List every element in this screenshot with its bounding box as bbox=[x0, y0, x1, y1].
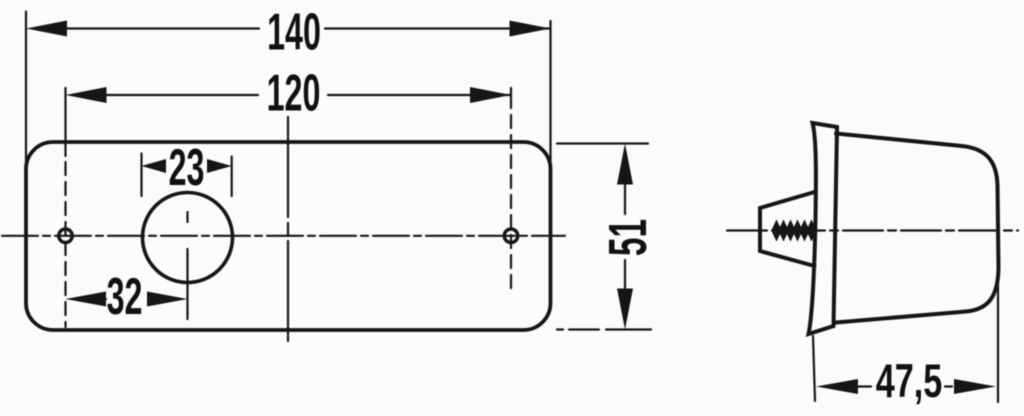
dimension text 32 bbox=[107, 268, 143, 326]
dimension 23 arrow left (pointing left) bbox=[142, 159, 167, 173]
dimension 47.5 arrow left bbox=[816, 379, 858, 394]
dimension 47.5 line bbox=[857, 385, 952, 387]
dimension text 120 bbox=[267, 65, 321, 123]
dimension text 51 (rotated) bbox=[597, 219, 658, 256]
vertical centerline (front view) bbox=[287, 117, 289, 341]
side view horizontal centerline bbox=[727, 229, 1018, 231]
side view: lamp body profile bbox=[836, 134, 999, 323]
right mounting point circle bbox=[504, 229, 518, 243]
left mounting centerline (dashed vertical, 120 extension) bbox=[64, 88, 66, 156]
svg-text:51: 51 bbox=[597, 219, 658, 256]
side view: threaded stud bbox=[772, 222, 815, 240]
svg-text:32: 32 bbox=[107, 268, 143, 326]
dimension 140 line bbox=[66, 27, 550, 29]
lens hole circle d23 bbox=[143, 193, 233, 283]
dimension text 47,5 bbox=[876, 355, 943, 408]
dimension text 23 bbox=[169, 139, 205, 197]
dimension 120 arrow left bbox=[66, 87, 107, 103]
dimension 32 arrow left (pointing left) bbox=[66, 292, 107, 307]
dimension 23 arrow right (pointing right) bbox=[207, 159, 232, 173]
svg-text:23: 23 bbox=[169, 139, 205, 197]
dimension 51 line vertical bbox=[624, 184, 626, 288]
side view: screw boss trapezoid bbox=[760, 192, 815, 266]
dimension 32 arrow right (pointing right) bbox=[147, 292, 188, 307]
svg-text:140: 140 bbox=[267, 4, 321, 62]
dimension 51 extension line top bbox=[557, 142, 648, 144]
dimension 140 arrow right bbox=[510, 21, 551, 37]
lens hole vertical center mark bbox=[186, 212, 188, 319]
dimension 47.5 extension line right bbox=[997, 272, 999, 402]
svg-text:120: 120 bbox=[267, 65, 321, 123]
dimension 140 extension line left bbox=[25, 12, 27, 173]
svg-text:47,5: 47,5 bbox=[876, 355, 943, 408]
dimension 140 arrow left bbox=[26, 21, 67, 37]
dimension 47.5 arrow right bbox=[954, 379, 996, 394]
dimension 32 line bbox=[104, 298, 106, 300]
lamp housing outline (front view rounded rectangle) bbox=[26, 142, 551, 330]
right mounting centerline (dashed vertical, 120 extension) bbox=[510, 88, 512, 108]
dimension text 140 bbox=[267, 4, 321, 62]
dimension 51 extension line bottom bbox=[557, 328, 651, 330]
dimension 47.5 extension line left bbox=[813, 336, 815, 401]
dimension 51 arrow up bbox=[617, 144, 633, 185]
horizontal centerline (front view) bbox=[2, 235, 565, 237]
left mounting point circle bbox=[59, 229, 73, 243]
dimension 120 arrow right bbox=[470, 87, 511, 103]
dimension 23 extension line right bbox=[231, 157, 233, 197]
dimension 120 line bbox=[106, 94, 510, 96]
dimension 23 extension line left bbox=[140, 154, 142, 197]
dimension 140 extension line right bbox=[549, 21, 551, 172]
dimension 51 arrow down bbox=[617, 289, 633, 330]
side view: mounting flange plate bbox=[809, 123, 838, 334]
